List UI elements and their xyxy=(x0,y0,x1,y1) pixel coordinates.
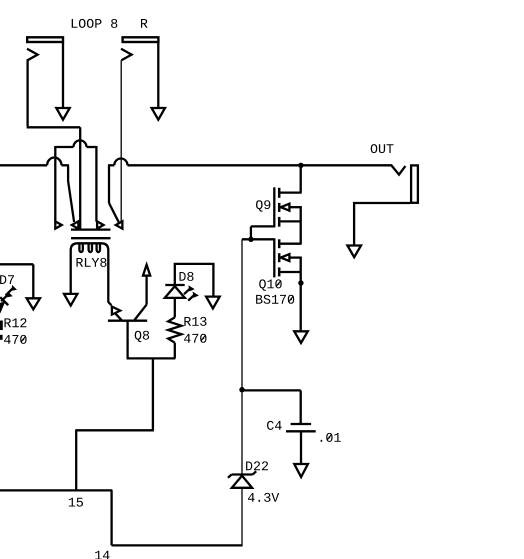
wire jack J2 sleeve down xyxy=(157,43,159,108)
wire D8 to R13 xyxy=(174,298,176,318)
label 470 xyxy=(184,334,207,343)
LED D8 emission arrow 1 xyxy=(184,288,190,294)
wire main net segment A xyxy=(0,164,47,166)
IC box edge top xyxy=(0,489,112,491)
wire gate rail down xyxy=(241,239,243,473)
LED D7 cathode bar xyxy=(0,297,8,305)
label pin 15 xyxy=(69,498,83,507)
jack J1 LOOP 8 bar xyxy=(27,37,63,42)
wire Q8 collector up xyxy=(145,276,147,305)
wire R13 bottom xyxy=(174,343,176,359)
LED D7 emission arrow 1 xyxy=(6,288,13,295)
wire relay fixed link right xyxy=(87,146,97,148)
wire Q9 gate down xyxy=(250,226,252,239)
relay pole1 fixed contact wire xyxy=(55,146,73,148)
relay armature bar xyxy=(71,228,111,230)
mosfet Q9 source stub xyxy=(280,220,301,222)
wire hop over jack J2 line xyxy=(114,159,127,166)
label pin 14 xyxy=(95,551,109,559)
relay pole2 moving contact arrow xyxy=(116,221,123,228)
jack J2 tip contact xyxy=(121,49,132,60)
ground arrow jack J1 xyxy=(56,108,69,120)
LED D8 triangle xyxy=(165,286,185,298)
power arrow Q8 collector xyxy=(143,265,150,276)
label C4 xyxy=(267,421,282,430)
mosfet Q10 body arrow xyxy=(281,254,290,261)
jack J1 tip contact xyxy=(27,49,38,127)
label R xyxy=(141,19,148,28)
mosfet Q9 channel plates xyxy=(278,188,281,198)
relay link bar xyxy=(71,237,111,239)
label .01 xyxy=(321,433,341,442)
ground arrow D8 xyxy=(206,297,220,309)
mosfet Q10 channel plates xyxy=(278,239,281,248)
jack J2 R bar xyxy=(123,37,159,42)
LED D8 cathode bar xyxy=(165,284,184,286)
wire jack OUT sleeve xyxy=(354,203,410,246)
wire C4 top xyxy=(300,390,302,423)
wire Q10 source rail down xyxy=(300,257,302,332)
relay coil loop 1 xyxy=(79,244,82,252)
label RLY8 xyxy=(77,258,107,267)
node dot Q10 source xyxy=(298,280,303,285)
label BS170 xyxy=(256,295,294,304)
label LOOP 8 xyxy=(72,19,118,28)
LED D7 emission arrow 2 xyxy=(1,295,8,302)
wire D22 bottom xyxy=(241,489,243,545)
resistor R13 zigzag xyxy=(168,317,181,342)
wire relay pole2 moving vertical xyxy=(108,165,110,203)
wire main net stub at pole2 xyxy=(108,164,114,166)
mosfet Q9 body arrow xyxy=(281,204,290,211)
capacitor C4 plate bottom xyxy=(286,430,316,432)
transistor Q8 collector slant xyxy=(135,305,147,320)
wire D7 horizontal xyxy=(0,263,33,265)
node dot main-Q9 xyxy=(298,163,303,168)
capacitor C4 plate top xyxy=(291,423,312,425)
ground arrow OUT xyxy=(347,246,361,258)
label 4.3V xyxy=(248,493,279,502)
ground arrow D7 xyxy=(27,298,40,309)
wire C4 branch horizontal xyxy=(242,389,301,391)
wire jack J2 contact thin down to relay pole2 xyxy=(120,60,122,228)
wire relay pole2 fixed down xyxy=(95,146,97,222)
wire IC pin15 vertical xyxy=(75,430,77,489)
ground arrow C4 xyxy=(294,464,308,477)
label Q9 xyxy=(256,200,270,211)
LED D8 emission arrow 2 xyxy=(188,295,194,301)
wire relay pole1 moving slant xyxy=(68,181,74,222)
wire Q10 gate left xyxy=(242,238,274,240)
jack OUT tip notch xyxy=(392,166,406,175)
label R12 clipped xyxy=(5,318,27,327)
node dot C4 branch xyxy=(239,387,244,392)
mosfet Q9 drain stub xyxy=(280,191,301,193)
wire Q8 base down xyxy=(126,321,128,359)
relay pole2 fixed contact arrow xyxy=(97,221,103,228)
wire jack J1 contact to relay pole1 moving xyxy=(79,127,81,229)
mosfet Q10 gate line xyxy=(273,238,275,277)
zener D22 triangle xyxy=(232,476,252,488)
ground arrow relay coil xyxy=(64,294,77,306)
label Q10 xyxy=(259,279,282,290)
relay pole1 moving contact arrow xyxy=(72,221,79,228)
relay RLY8 coil box xyxy=(71,243,109,302)
label D8 xyxy=(180,272,194,281)
label D22 xyxy=(246,461,268,470)
wire relay pole2 moving slant xyxy=(109,203,119,222)
label Q8 xyxy=(135,331,149,342)
wire hop over jack J1 line xyxy=(74,140,87,147)
label OUT xyxy=(371,144,394,153)
wire jack J1 contact horizontal xyxy=(27,126,81,128)
IC box edge bottom step xyxy=(112,544,243,546)
jack OUT bar xyxy=(411,165,418,202)
wire relay pole1 moving vertical xyxy=(67,165,69,181)
IC box edge right xyxy=(110,490,112,545)
label D7 xyxy=(0,275,14,284)
label R13 xyxy=(184,317,206,326)
ground arrow jack J2 xyxy=(152,108,165,120)
relay coil loop 2 xyxy=(89,244,92,252)
mosfet Q10 source stub xyxy=(280,271,301,273)
ground arrow Q10 xyxy=(294,331,308,343)
wire IC pin15 horizontal xyxy=(75,429,154,431)
relay coil loop 3 xyxy=(97,244,100,252)
transistor Q8 base bar xyxy=(108,320,147,322)
wire C4 bottom xyxy=(300,432,302,464)
wire relay pole1 fixed down xyxy=(54,146,56,222)
LED D7 triangle xyxy=(0,303,4,312)
wire node down to IC xyxy=(152,358,154,430)
zener D22 cathode bar xyxy=(232,473,253,475)
relay pole1 fixed contact arrow xyxy=(55,221,61,228)
mosfet Q9 gate line xyxy=(273,187,275,227)
wire main net segment A2 xyxy=(62,164,70,166)
label 470 clipped xyxy=(4,335,27,344)
wire Q9 gate left xyxy=(251,225,274,227)
transistor Q8 emitter arrow xyxy=(108,302,111,305)
wire hop over relay pole1 fixed line xyxy=(47,158,61,166)
mosfet Q10 drain stub xyxy=(280,243,301,245)
wire main net segment C xyxy=(128,164,393,166)
node dot gate join xyxy=(248,237,253,242)
wire jack J1 sleeve down xyxy=(62,43,64,108)
wire Q9 arrow-source rail xyxy=(300,206,302,244)
wire Q9 drain to main xyxy=(300,164,302,192)
wire base node horizontal xyxy=(127,357,176,359)
LED D8 top wire xyxy=(175,264,214,297)
wire D7 down xyxy=(32,264,34,298)
